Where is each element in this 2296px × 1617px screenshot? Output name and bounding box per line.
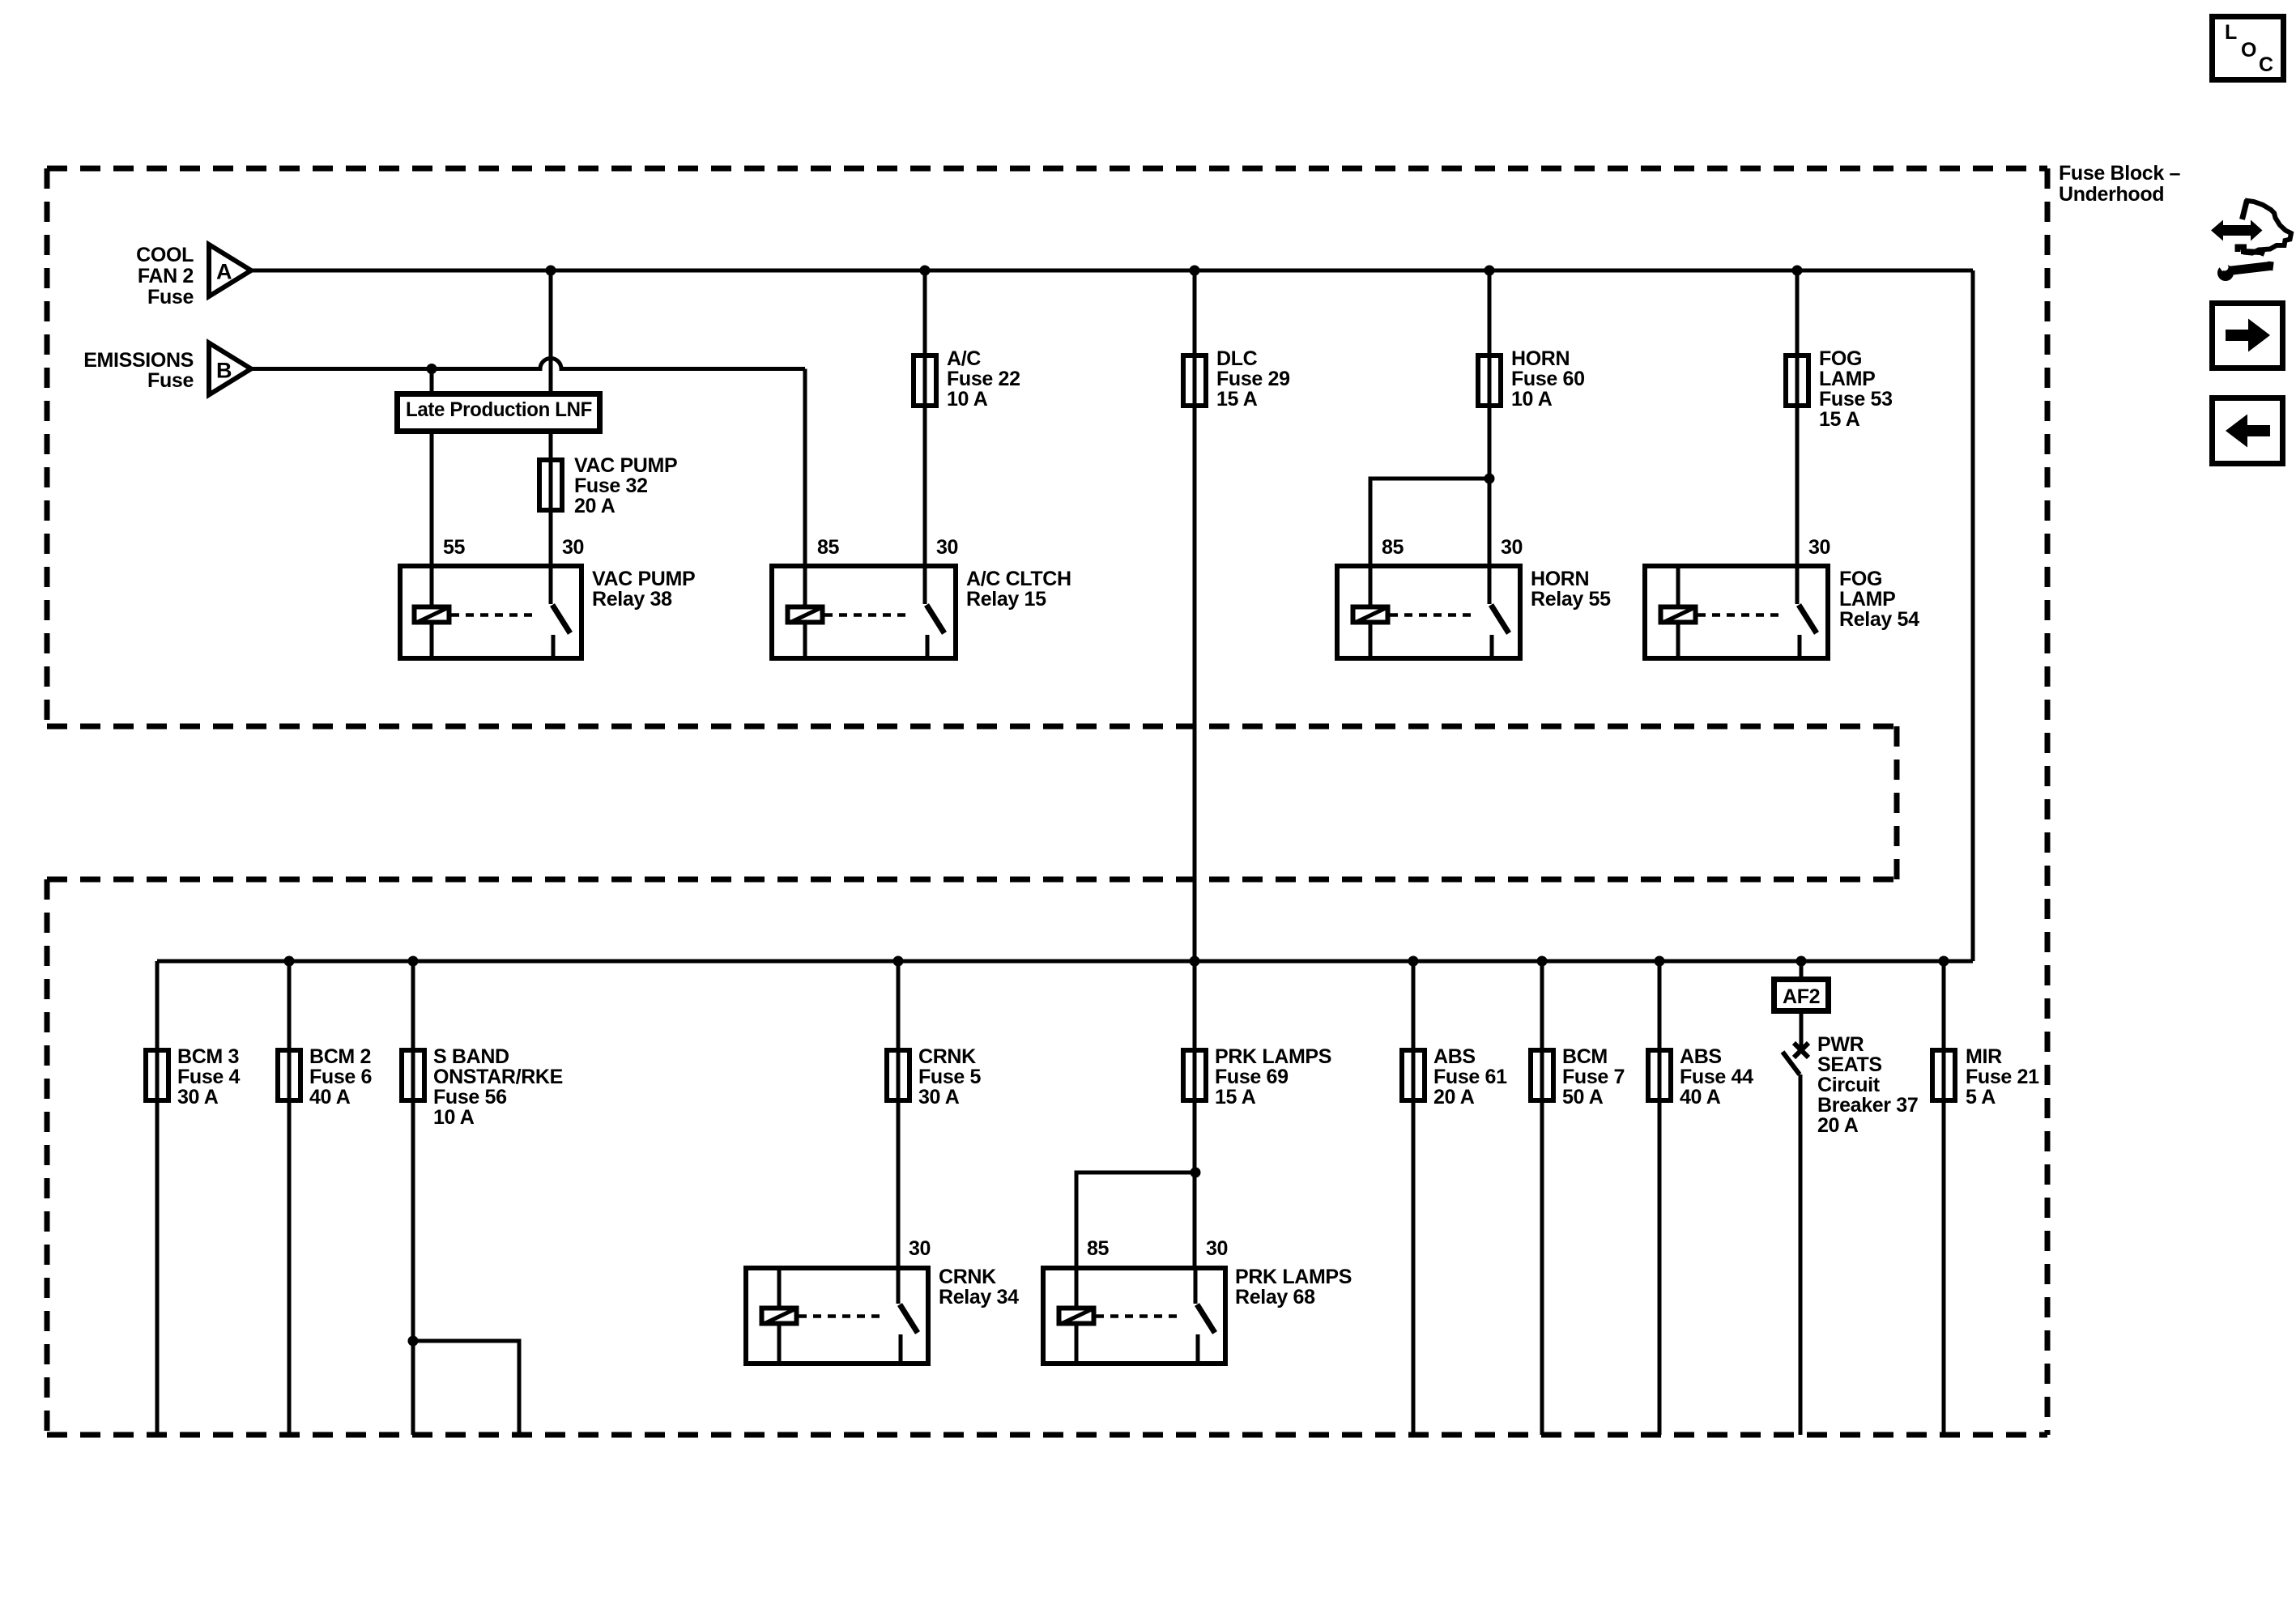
wire: AF2 drop (1800, 961, 1804, 977)
fuse F32 VAC PUMP symbol (539, 460, 562, 510)
wire: S BAND drop (411, 961, 415, 1435)
svg-text:Fuse 4: Fuse 4 (177, 1066, 241, 1088)
svg-text:Fuse 32: Fuse 32 (574, 474, 648, 497)
node dot wire A x1142 (920, 266, 931, 276)
node dot wire A x2219 (1792, 266, 1803, 276)
svg-text:10 A: 10 A (947, 388, 988, 411)
Late Production LNF box (398, 394, 600, 432)
wire: fuse22 drop to relay15 pin30 (923, 270, 927, 566)
svg-text:Fuse 61: Fuse 61 (1433, 1066, 1507, 1088)
svg-text:Fuse Block –: Fuse Block – (2059, 162, 2180, 185)
wire: PRK relay pin85 branch (1076, 1172, 1195, 1268)
wire: fuse53 drop to fog relay pin30 (1795, 270, 1800, 566)
wire A (COOL FAN 2 feed) (252, 269, 1973, 273)
svg-text:EMISSIONS: EMISSIONS (83, 349, 194, 372)
label VAC PUMP Relay 38 (592, 568, 695, 611)
wire: DLC drop down through slot to lower bus and PRK relay (1193, 270, 1197, 1268)
node dot bus x1475 (1190, 956, 1200, 967)
fuse block dashed border: bottom edge (47, 1432, 2047, 1438)
svg-text:40 A: 40 A (309, 1086, 351, 1108)
svg-text:Breaker 37: Breaker 37 (1817, 1094, 1918, 1117)
svg-text:10 A: 10 A (433, 1106, 475, 1129)
label MIR Fuse 21 5 A (1966, 1045, 2039, 1108)
wire A right drop to lower bus (1971, 270, 1975, 961)
svg-text:Fuse 53: Fuse 53 (1819, 388, 1893, 411)
fuse block dashed border: upper box bottom slot edge (47, 724, 1897, 730)
label CRNK Relay 34 (939, 1266, 1019, 1308)
svg-text:LAMP: LAMP (1819, 368, 1875, 390)
relay K15 A/C CLTCH box (772, 566, 956, 658)
node dot bus x1109 (893, 956, 904, 967)
node dot bus x357 (284, 956, 295, 967)
wire: A junction down to A/C relay pin85 (from wire B corner) (803, 369, 807, 567)
label CRNK Fuse 5 30 A (918, 1045, 982, 1108)
fuse F61 ABS symbol (1402, 1050, 1425, 1100)
svg-text:AF2: AF2 (1783, 985, 1820, 1008)
svg-text:HORN: HORN (1511, 347, 1570, 370)
svg-text:30: 30 (1808, 536, 1830, 559)
wire: horn relay pin85 branch (1370, 479, 1489, 566)
svg-text:SEATS: SEATS (1817, 1053, 1882, 1076)
svg-text:Late Production LNF: Late Production LNF (406, 398, 592, 421)
fuse F5 CRNK symbol (887, 1050, 909, 1100)
svg-text:COOL: COOL (136, 244, 194, 266)
wire: B junction down to Late box (430, 369, 434, 393)
svg-text:Fuse 5: Fuse 5 (918, 1066, 982, 1088)
fuse block dashed border: slot notch vertical (1894, 726, 1900, 879)
wire: BCM2 drop (288, 961, 292, 1435)
vehicle service icon: car outline windshield (2243, 200, 2247, 219)
wire: Late box to relay38 pin55 (430, 433, 434, 566)
svg-text:Relay 54: Relay 54 (1839, 608, 1919, 631)
vehicle service icon: double arrow (2211, 220, 2263, 241)
svg-text:S BAND: S BAND (433, 1045, 509, 1068)
svg-text:55: 55 (443, 536, 466, 559)
svg-text:85: 85 (1087, 1237, 1110, 1260)
svg-text:CRNK: CRNK (918, 1045, 976, 1068)
node dot S BAND branch (408, 1336, 419, 1347)
node dot PRK 85 branch (1191, 1168, 1201, 1178)
svg-text:15 A: 15 A (1819, 408, 1860, 431)
fuse F56 S BAND symbol (402, 1050, 424, 1100)
svg-text:VAC PUMP: VAC PUMP (592, 568, 695, 590)
wire: ABS61 drop (1412, 961, 1416, 1435)
LOC reference box (2213, 17, 2284, 80)
fuse F21 MIR symbol (1932, 1050, 1955, 1100)
svg-text:VAC PUMP: VAC PUMP (574, 454, 677, 477)
svg-text:B: B (216, 359, 232, 383)
label A/C Fuse 22 10 A (947, 347, 1020, 411)
svg-text:L: L (2225, 21, 2237, 44)
label BCM Fuse 7 50 A (1562, 1045, 1625, 1108)
vehicle service icon: wrench (2217, 262, 2274, 281)
svg-text:Fuse 44: Fuse 44 (1680, 1066, 1753, 1088)
fuse F53 FOG LAMP symbol (1786, 355, 1808, 406)
nav box arrow right (2213, 304, 2283, 368)
svg-text:C: C (2259, 53, 2273, 76)
svg-text:LAMP: LAMP (1839, 588, 1895, 611)
svg-text:DLC: DLC (1216, 347, 1258, 370)
node dot bus x1904 (1537, 956, 1548, 967)
fuse block dashed border: upper-left edge (45, 168, 50, 726)
svg-text:20 A: 20 A (1433, 1086, 1475, 1108)
node dot bus x2224 (1796, 956, 1807, 967)
wire: BCM3 drop (155, 961, 160, 1435)
label FOG LAMP Relay 54 (1839, 568, 1919, 631)
svg-text:Fuse 69: Fuse 69 (1215, 1066, 1289, 1088)
svg-text:85: 85 (817, 536, 840, 559)
label A/C CLTCH Relay 15 (966, 568, 1071, 611)
svg-text:Relay 68: Relay 68 (1235, 1286, 1315, 1308)
svg-text:15 A: 15 A (1216, 388, 1258, 411)
svg-text:Relay 55: Relay 55 (1531, 588, 1611, 611)
relay K68 PRK LAMPS box (1043, 1268, 1225, 1364)
wire: A junction down to Late box (crosses over wire B at hop) (549, 270, 553, 392)
svg-text:Fuse 56: Fuse 56 (433, 1086, 507, 1108)
svg-text:Fuse 22: Fuse 22 (947, 368, 1020, 390)
svg-text:20 A: 20 A (1817, 1114, 1859, 1137)
svg-text:Circuit: Circuit (1817, 1074, 1881, 1096)
svg-text:Fuse 29: Fuse 29 (1216, 368, 1290, 390)
svg-text:Fuse: Fuse (147, 286, 194, 309)
svg-text:FOG: FOG (1819, 347, 1862, 370)
svg-text:30: 30 (1206, 1237, 1228, 1260)
fuse block dashed border: right edge (2045, 168, 2051, 1435)
wire: ABS44 drop (1658, 961, 1662, 1435)
vehicle service icon: grille bar (2238, 247, 2264, 254)
label FOG LAMP Fuse 53 15 A (1819, 347, 1893, 431)
label Fuse Block - Underhood (2059, 162, 2180, 206)
AF2 connector box (1774, 980, 1829, 1011)
triangle A connector (209, 245, 251, 296)
svg-text:Relay 15: Relay 15 (966, 588, 1046, 611)
wire: BCM7 drop (1540, 961, 1544, 1435)
svg-text:A: A (216, 260, 232, 284)
svg-text:O: O (2241, 39, 2256, 62)
circuit breaker CB37 blade (1783, 1052, 1800, 1074)
svg-text:50 A: 50 A (1562, 1086, 1604, 1108)
svg-text:MIR: MIR (1966, 1045, 2002, 1068)
svg-text:HORN: HORN (1531, 568, 1589, 590)
svg-text:15 A: 15 A (1215, 1086, 1256, 1108)
svg-text:Fuse 6: Fuse 6 (309, 1066, 372, 1088)
fuse block dashed border: lower-left edge (45, 879, 50, 1435)
node dot wire A x680 (546, 266, 556, 276)
node dot wire A x1839 (1485, 266, 1495, 276)
svg-text:Fuse: Fuse (147, 369, 194, 392)
wire: fuse60 drop to horn relay pin30 (1488, 270, 1492, 566)
node dot bus x1745 (1408, 956, 1419, 967)
svg-text:Fuse 60: Fuse 60 (1511, 368, 1585, 390)
svg-text:10 A: 10 A (1511, 388, 1553, 411)
svg-text:PRK LAMPS: PRK LAMPS (1235, 1266, 1352, 1288)
svg-text:ABS: ABS (1680, 1045, 1722, 1068)
svg-text:Relay 34: Relay 34 (939, 1286, 1019, 1308)
wire: MIR drop (1942, 961, 1946, 1435)
fuse F7 BCM symbol (1531, 1050, 1553, 1100)
wire: S BAND right branch (413, 1341, 519, 1435)
svg-text:ABS: ABS (1433, 1045, 1476, 1068)
node dot horn85 branch (1485, 474, 1495, 484)
svg-text:30 A: 30 A (177, 1086, 219, 1108)
node dot wire A x1475 (1190, 266, 1200, 276)
svg-text:30: 30 (562, 536, 584, 559)
label S BAND ONSTAR/RKE Fuse 56 10 A (433, 1045, 563, 1129)
fuse F60 HORN symbol (1478, 355, 1501, 406)
relay K38 VAC PUMP box (400, 566, 581, 658)
node dot wire B x533 (427, 364, 437, 374)
fuse block dashed border: top edge (47, 166, 2047, 172)
label VAC PUMP Fuse 32 20 A (574, 454, 677, 517)
node dot bus x2400 (1939, 956, 1949, 967)
svg-text:40 A: 40 A (1680, 1086, 1721, 1108)
nav box arrow left (2213, 398, 2283, 464)
label BCM 2 Fuse 6 40 A (309, 1045, 372, 1108)
svg-text:30: 30 (1501, 536, 1523, 559)
svg-text:BCM 3: BCM 3 (177, 1045, 239, 1068)
svg-text:5 A: 5 A (1966, 1086, 1996, 1108)
svg-text:Relay 38: Relay 38 (592, 588, 672, 611)
svg-text:85: 85 (1382, 536, 1404, 559)
label BCM 3 Fuse 4 30 A (177, 1045, 241, 1108)
label HORN Relay 55 (1531, 568, 1611, 611)
svg-text:30 A: 30 A (918, 1086, 960, 1108)
fuse F69 PRK LAMPS symbol (1183, 1050, 1206, 1100)
label EMISSIONS Fuse (83, 349, 194, 392)
label PWR SEATS Circuit Breaker 37 20 A (1817, 1033, 1918, 1137)
node dot bus x2049 (1655, 956, 1665, 967)
svg-text:FOG: FOG (1839, 568, 1882, 590)
fuse F44 ABS symbol (1648, 1050, 1671, 1100)
wire: AF2 box to breaker (1800, 1014, 1804, 1047)
svg-text:30: 30 (909, 1237, 931, 1260)
svg-text:FAN 2: FAN 2 (138, 265, 194, 287)
label HORN Fuse 60 10 A (1511, 347, 1585, 411)
fuse F29 DLC symbol (1183, 355, 1206, 406)
svg-text:Fuse 21: Fuse 21 (1966, 1066, 2039, 1088)
node dot bus x510 (408, 956, 419, 967)
relay K54 FOG LAMP box (1645, 566, 1828, 658)
svg-text:Fuse 7: Fuse 7 (1562, 1066, 1625, 1088)
svg-text:20 A: 20 A (574, 495, 616, 517)
wire: breaker down to border (1799, 1074, 1803, 1435)
svg-text:BCM 2: BCM 2 (309, 1045, 371, 1068)
relay K34 CRNK box (746, 1268, 928, 1364)
svg-text:PRK LAMPS: PRK LAMPS (1215, 1045, 1331, 1068)
svg-text:PWR: PWR (1817, 1033, 1864, 1056)
svg-text:Underhood: Underhood (2059, 183, 2164, 206)
label DLC Fuse 29 15 A (1216, 347, 1290, 411)
relay K55 HORN box (1337, 566, 1520, 658)
label PRK LAMPS Fuse 69 15 A (1215, 1045, 1331, 1108)
wire B (EMISSIONS feed) with hop over vertical (252, 359, 805, 369)
svg-text:ONSTAR/RKE: ONSTAR/RKE (433, 1066, 563, 1088)
fuse block dashed border: lower box top slot edge (47, 877, 1897, 883)
label ABS Fuse 44 40 A (1680, 1045, 1753, 1108)
fuse F4 BCM 3 symbol (146, 1050, 168, 1100)
svg-text:30: 30 (936, 536, 958, 559)
svg-text:A/C: A/C (947, 347, 981, 370)
circuit breaker CB37 X mark (1794, 1043, 1808, 1057)
svg-text:BCM: BCM (1562, 1045, 1608, 1068)
label COOL FAN 2 Fuse (136, 244, 194, 309)
vehicle service icon: car outline hood and nose (2243, 201, 2291, 253)
label PRK LAMPS Relay 68 (1235, 1266, 1352, 1308)
wire: CRNK drop to relay34 pin30 (897, 961, 901, 1268)
triangle B connector (209, 343, 251, 395)
wire: Late box down through fuse32 to relay38 pin30 (549, 433, 553, 566)
svg-text:A/C CLTCH: A/C CLTCH (966, 568, 1071, 590)
lower power bus (157, 960, 1973, 964)
label ABS Fuse 61 20 A (1433, 1045, 1507, 1108)
fuse F6 BCM 2 symbol (278, 1050, 300, 1100)
svg-text:CRNK: CRNK (939, 1266, 996, 1288)
fuse F22 A/C symbol (914, 355, 936, 406)
